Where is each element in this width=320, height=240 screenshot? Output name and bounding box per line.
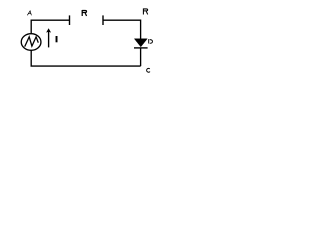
resistor R right terminal tick [102,15,104,25]
node C label [147,68,150,72]
source M symbol [25,37,39,47]
resistor R label [82,10,86,16]
current arrow shaft [48,32,50,48]
current arrow head [46,28,51,32]
bottom wire: node C corner to source bottom [31,51,140,67]
current label I [56,36,58,42]
diode D anode triangle [134,39,147,47]
source circle [21,34,41,51]
diode D cathode bar [134,47,148,49]
diode D label [149,39,153,43]
wire: node A corner to resistor left terminal [31,20,69,33]
node B label (renders as R glyph) [143,8,147,14]
wire: diode cathode to node C corner [140,48,142,66]
node A label [27,11,31,15]
resistor R left terminal tick [69,15,71,25]
wire: resistor right terminal to node B corner [103,20,141,39]
